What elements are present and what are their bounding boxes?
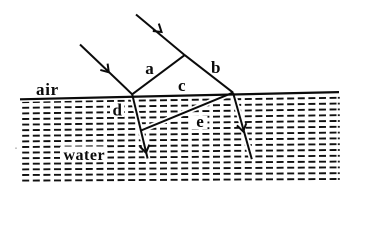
white halos around underwater lines (20, 92, 339, 159)
water hatching (dashed shading rows) (22, 98, 336, 181)
svg-text:air: air (36, 80, 59, 99)
clearing box for label e (190, 116, 208, 129)
faint scan speck (15, 147, 17, 149)
svg-text:e: e (196, 112, 204, 131)
refracted ray 2 with arrowhead (233, 93, 252, 160)
svg-text:water: water (64, 147, 106, 164)
refracted ray d with arrowhead (132, 94, 149, 158)
svg-text:d: d (113, 101, 123, 120)
hatching row-end dots at right edge (338, 97, 340, 180)
wavefront segment a (132, 55, 185, 94)
wavefront segment e (141, 93, 233, 131)
water surface line (air/water interface) (20, 92, 339, 99)
svg-text:c: c (178, 76, 186, 95)
clearing box for label d (110, 103, 124, 117)
incident ray 2 with arrowhead (136, 15, 185, 56)
segment b of incident ray 2 (185, 55, 233, 93)
svg-text:b: b (211, 58, 220, 77)
svg-text:a: a (145, 59, 154, 78)
incident ray 1 with arrowhead (80, 45, 132, 95)
clearing box for label water (60, 147, 108, 161)
